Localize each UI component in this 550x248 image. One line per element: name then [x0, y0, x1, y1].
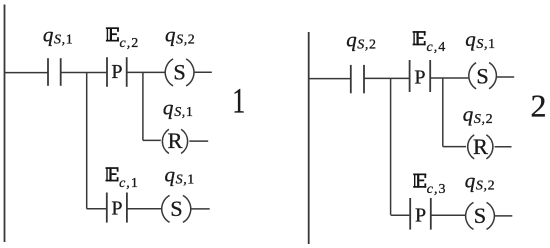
svg-text:S,1: S,1	[54, 33, 73, 48]
svg-text:c,1: c,1	[119, 176, 139, 191]
svg-text:S,2: S,2	[474, 112, 493, 127]
svg-text:q: q	[346, 28, 357, 52]
svg-text:S,1: S,1	[176, 172, 195, 187]
svg-text:c,3: c,3	[427, 182, 447, 197]
svg-text:S: S	[170, 196, 182, 221]
svg-text:S: S	[476, 63, 488, 88]
svg-text:S: S	[173, 59, 185, 84]
svg-text:P: P	[415, 204, 426, 226]
svg-text:S,2: S,2	[176, 33, 195, 48]
svg-text:S,2: S,2	[357, 38, 376, 53]
svg-text:q: q	[43, 23, 54, 47]
svg-text:q: q	[163, 96, 174, 120]
svg-text:R: R	[473, 134, 488, 159]
svg-text:S,2: S,2	[476, 178, 495, 193]
svg-text:2: 2	[531, 87, 547, 123]
svg-text:S: S	[474, 203, 486, 228]
svg-text:1: 1	[232, 80, 245, 120]
svg-text:P: P	[414, 66, 425, 88]
svg-text:q: q	[465, 168, 476, 192]
svg-text:q: q	[465, 27, 476, 51]
svg-text:c,2: c,2	[120, 36, 140, 51]
svg-text:S,1: S,1	[174, 105, 193, 120]
svg-text:q: q	[165, 162, 176, 186]
svg-text:R: R	[168, 128, 183, 153]
svg-text:q: q	[463, 102, 474, 126]
svg-text:P: P	[111, 198, 122, 220]
svg-text:c,4: c,4	[427, 40, 447, 55]
svg-text:S,1: S,1	[476, 37, 495, 52]
svg-text:P: P	[111, 61, 122, 83]
svg-text:q: q	[165, 23, 176, 47]
